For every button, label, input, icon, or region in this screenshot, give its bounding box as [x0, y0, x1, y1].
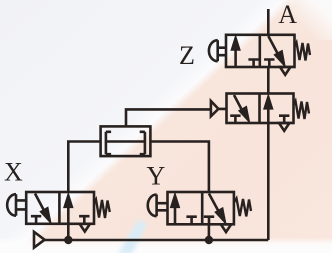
- valve Y exhaust triangle: [221, 224, 231, 232]
- valve Y left box: up arrow: [170, 193, 179, 224]
- valve X right box: up arrow (pass): [64, 193, 73, 224]
- pilot valve exhaust triangle: [279, 123, 289, 131]
- valve X return spring: [94, 200, 110, 219]
- valve Y right box: blocked bottom port T: [204, 217, 214, 225]
- valve X left box: diagonal arrow to exhaust: [35, 194, 51, 224]
- bottom white fade: [0, 234, 332, 253]
- valve Z left box: up arrow: [231, 36, 240, 67]
- shuttle valve right seat: [140, 132, 145, 154]
- wire: bottom supply rail: [45, 239, 269, 242]
- junction node: Y line to rail: [205, 236, 213, 244]
- valve Z return spring: [295, 43, 311, 61]
- valve Z exhaust triangle: [280, 67, 290, 75]
- valve X exhaust triangle: [80, 224, 90, 232]
- shuttle (two-pressure) valve body: [101, 126, 151, 156]
- valve Y left box: blocked port T: [186, 217, 196, 225]
- pilot valve body: [227, 94, 294, 124]
- valve Y return spring: [234, 198, 251, 216]
- svg-text:A: A: [278, 0, 297, 29]
- junction node: X line to rail: [64, 236, 72, 244]
- pilot valve right box: blocked exhaust T: [279, 116, 289, 123]
- svg-text:X: X: [4, 158, 23, 187]
- valve Y body: [168, 192, 234, 224]
- valve X push button: [7, 194, 26, 216]
- valve Z left box: blocked port T: [248, 60, 258, 68]
- wire: shuttle top port to pilot input: [126, 109, 211, 126]
- shuttle valve left seat: [106, 132, 111, 154]
- supply source triangle: [34, 232, 45, 248]
- valve Y right box: diagonal arrow to exhaust: [209, 194, 226, 225]
- valve Z right box: diagonal arrow to exhaust: [268, 36, 285, 67]
- valve Z push button: [209, 40, 226, 61]
- wire: shuttle right port to valve Y top: [150, 142, 209, 193]
- valve X left box: blocked port T: [31, 216, 41, 224]
- pilot valve pneumatic pilot triangle: [211, 101, 227, 116]
- valve X right box: blocked exhaust T: [79, 216, 89, 224]
- top-right white wedge: [290, 0, 332, 40]
- pilot valve return spring: [294, 101, 310, 119]
- valve Z body: [226, 35, 295, 67]
- wire: valve X through line up to shuttle left port: [68, 142, 100, 193]
- wire: pilot valve bottom down to supply rail corner: [267, 123, 270, 240]
- svg-text:Z: Z: [179, 41, 195, 70]
- wire: A line top into valve Z: [267, 9, 270, 35]
- pilot valve right box: up arrow (pass): [264, 95, 273, 124]
- pilot valve left box: blocked port T: [230, 116, 240, 123]
- valve X body: [26, 192, 94, 224]
- wire: valve Z bottom to pilot valve top: [267, 67, 270, 94]
- valve Y push button: [148, 195, 168, 217]
- blue watermark swoosh: [118, 220, 147, 253]
- wire: valve X bottom to rail: [67, 224, 70, 240]
- svg-text:Y: Y: [147, 162, 166, 191]
- wire: valve Y bottom to rail: [208, 224, 211, 240]
- shuttle valve stem: [106, 140, 145, 143]
- pilot valve left box: diagonal arrow to exhaust: [234, 95, 250, 123]
- valve Z right box: blocked bottom port T: [264, 60, 274, 68]
